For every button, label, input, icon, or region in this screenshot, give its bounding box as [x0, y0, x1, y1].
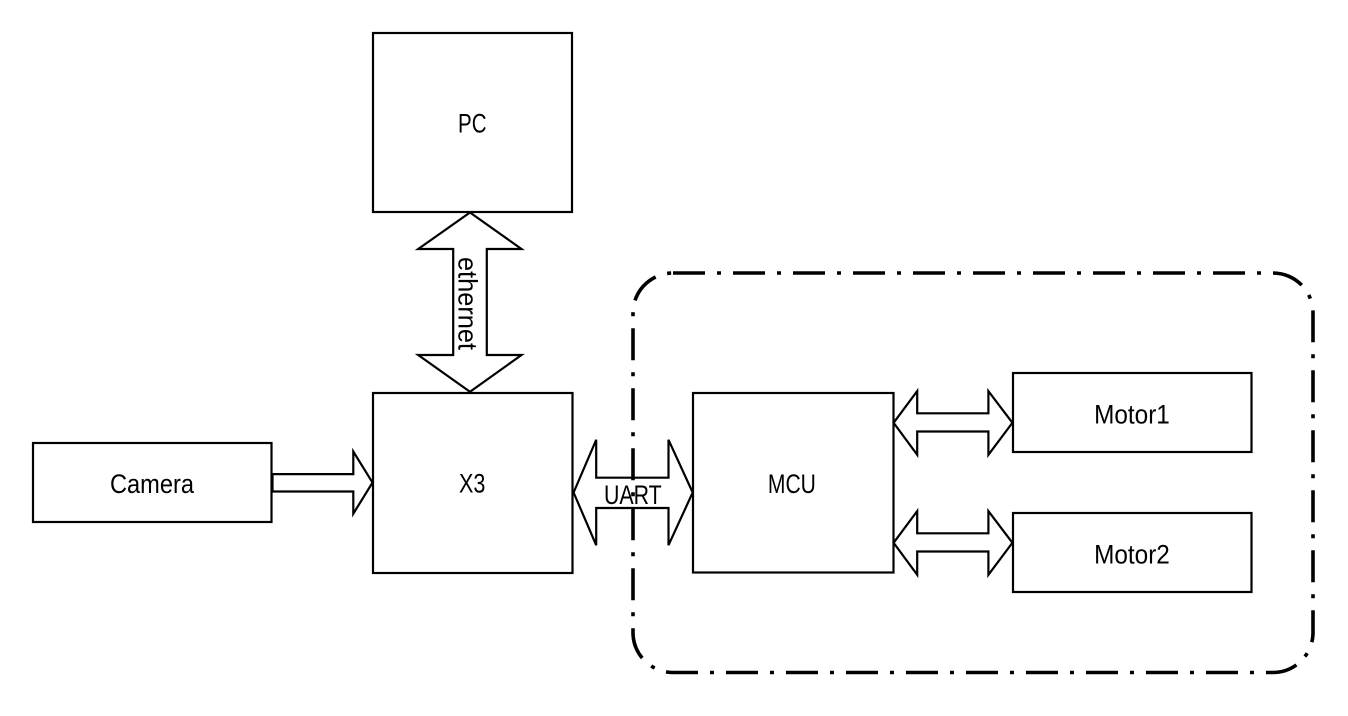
block Camera — [33, 443, 272, 522]
block X3 — [373, 393, 573, 573]
block PC — [373, 33, 572, 212]
svg-text:UART: UART — [604, 480, 662, 510]
svg-text:PC: PC — [458, 109, 487, 139]
svg-text:Camera: Camera — [110, 469, 194, 499]
svg-text:MCU: MCU — [768, 469, 816, 499]
dash-dot enclosure boundary — [633, 273, 1313, 673]
arrow Camera-X3 single horizontal — [273, 452, 373, 514]
svg-text:Motor2: Motor2 — [1094, 539, 1170, 569]
svg-text:Motor1: Motor1 — [1094, 399, 1170, 429]
arrow MCU-Motor2 double horizontal — [894, 511, 1013, 575]
block Motor1 — [1013, 373, 1252, 452]
block MCU — [693, 393, 894, 573]
svg-text:ethernet: ethernet — [453, 257, 483, 351]
arrow ethernet PC-X3 double vertical — [418, 213, 521, 392]
svg-text:X3: X3 — [459, 469, 485, 499]
arrow UART X3-MCU double horizontal — [574, 440, 693, 545]
arrow MCU-Motor1 double horizontal — [894, 391, 1013, 455]
block Motor2 — [1013, 513, 1252, 592]
